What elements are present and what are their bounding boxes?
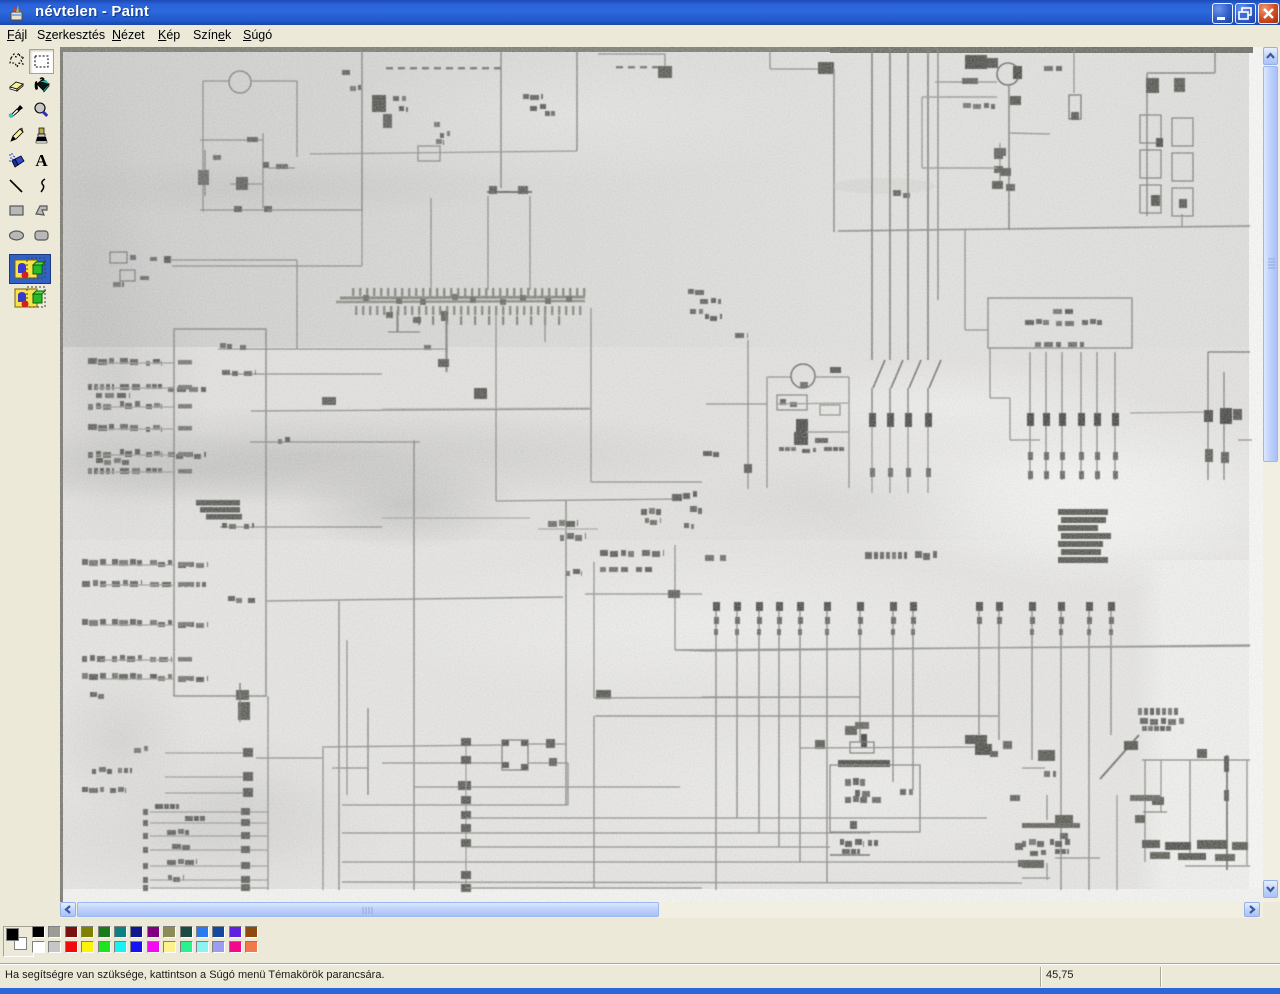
junction cluster (236, 690, 249, 700)
label (113, 282, 121, 287)
wire comb far right (1031, 602, 1033, 760)
tick labels (220, 343, 226, 348)
junction dot (461, 824, 471, 832)
wire (1046, 863, 1048, 880)
wire (367, 708, 369, 795)
wire (446, 308, 448, 372)
wire comb right pair (978, 602, 980, 740)
wire (965, 329, 988, 331)
wire (256, 757, 322, 759)
label (399, 106, 404, 111)
net label row (88, 358, 97, 364)
wire (935, 81, 997, 83)
left bottom group (1046, 795, 1048, 820)
wrinkle shading bands (0, 405, 750, 505)
wire (382, 762, 502, 764)
label (185, 816, 193, 821)
wire (218, 348, 448, 350)
wire (222, 373, 382, 375)
wire (594, 697, 860, 698)
wire (830, 854, 870, 856)
wire (322, 745, 502, 747)
wire (675, 650, 705, 651)
wire (414, 786, 680, 788)
U2 text (1053, 309, 1062, 314)
junction (596, 690, 611, 699)
label (155, 804, 163, 809)
label (342, 70, 350, 75)
label (172, 844, 181, 849)
label (893, 190, 901, 196)
junction (234, 206, 242, 212)
wire (342, 832, 870, 834)
meter M2 (767, 376, 791, 378)
wire (342, 882, 1022, 883)
junction dot (461, 811, 471, 819)
resistor stack (999, 143, 1001, 188)
connector J1 cluster (110, 252, 127, 263)
label (228, 596, 235, 601)
label PROBE (688, 289, 694, 294)
label (855, 790, 860, 796)
diode D1 (372, 95, 386, 112)
faint wire (382, 408, 590, 409)
junction dot (461, 884, 471, 892)
wire (250, 441, 420, 443)
text block NOTE (1058, 509, 1108, 515)
wire (487, 196, 489, 290)
label (424, 345, 431, 350)
wire (466, 817, 987, 819)
wire (267, 696, 269, 890)
label (92, 769, 96, 774)
connector row (150, 887, 268, 889)
wire (251, 80, 297, 82)
wire (296, 260, 298, 349)
junction (264, 206, 272, 212)
wire (1181, 214, 1183, 226)
label TP1 (523, 94, 529, 99)
wire (593, 562, 595, 698)
U2 text (1025, 320, 1034, 325)
wire (202, 81, 204, 212)
label (278, 439, 282, 444)
wire (262, 133, 264, 208)
connector comb under U2 (1029, 352, 1031, 480)
wire (1009, 398, 1011, 440)
text block SELECT (196, 500, 240, 506)
wire (1010, 439, 1040, 441)
relay block right (1207, 352, 1209, 480)
faint wire (382, 517, 530, 519)
U2 text (1035, 342, 1041, 347)
connector row (150, 865, 268, 867)
junction (1010, 96, 1021, 105)
wire (1010, 133, 1050, 134)
wire (591, 481, 702, 483)
label (963, 103, 971, 108)
wire (500, 48, 502, 188)
wire (1238, 439, 1252, 441)
IC U1 header strip (340, 297, 585, 298)
net label row (88, 384, 92, 390)
label plus (830, 367, 841, 373)
meter M1 (229, 71, 251, 93)
label (700, 299, 708, 304)
wire (342, 861, 1022, 863)
wire comb bottom (715, 602, 717, 890)
diode D4 (474, 388, 487, 399)
diode D3 (818, 62, 834, 74)
connector row (150, 835, 268, 837)
wire (170, 259, 297, 261)
wire (310, 151, 577, 154)
wire (430, 198, 432, 295)
label (436, 139, 442, 144)
wire (1022, 767, 1045, 769)
net label row (82, 581, 90, 587)
connector row (150, 849, 268, 851)
capacitor C2 (487, 191, 532, 193)
wire (268, 209, 362, 211)
label (735, 333, 744, 338)
switch box SW2 (1142, 759, 1250, 761)
capacitor C1 (230, 183, 262, 185)
label (168, 875, 172, 880)
meter pointer dark blob (796, 419, 808, 432)
wire (593, 716, 595, 888)
contact (1197, 749, 1207, 758)
junction (546, 739, 555, 748)
net label row (88, 424, 97, 430)
wire (990, 397, 1010, 399)
wire (200, 209, 268, 211)
resistor R1 (247, 137, 258, 142)
IC U2 box (988, 298, 1132, 348)
wire (466, 887, 702, 889)
resistor ladder (1146, 73, 1148, 216)
wire (674, 545, 676, 650)
smudge (832, 178, 936, 194)
wire (1116, 795, 1118, 890)
label (845, 779, 851, 786)
wire (465, 740, 467, 890)
IC header dark spots (363, 295, 369, 301)
meter scale box (777, 395, 807, 410)
label (276, 164, 288, 169)
wire (800, 747, 985, 748)
relay K1 (502, 740, 528, 770)
wire (332, 767, 368, 769)
junction dot (461, 738, 471, 746)
wire (769, 48, 771, 69)
wire (528, 762, 568, 764)
wire (413, 440, 415, 890)
resistor R5 pill (1073, 48, 1075, 93)
relay box K2 (open right) (922, 96, 997, 98)
wire (220, 526, 382, 528)
transistor Q1 (204, 150, 206, 196)
label (167, 860, 176, 865)
label (545, 111, 550, 116)
wire (1130, 412, 1208, 413)
wire (664, 54, 666, 78)
text cluster (548, 521, 557, 527)
label (1044, 771, 1050, 777)
contact (1124, 741, 1138, 750)
wire (576, 48, 578, 151)
wire (702, 696, 860, 698)
connector box B1 (174, 329, 266, 696)
dark cluster right (965, 735, 987, 744)
junction (549, 758, 557, 766)
junction dot (461, 796, 471, 804)
label (167, 830, 176, 835)
wire (747, 340, 749, 489)
bottom white strip of scan (60, 889, 1263, 902)
component X1 (418, 146, 440, 161)
wire (590, 308, 592, 482)
wire (565, 500, 567, 805)
junction (672, 494, 682, 501)
junction blob (458, 781, 471, 790)
wire (496, 499, 680, 501)
connector row (165, 792, 246, 794)
wire (964, 230, 966, 330)
wire (598, 53, 665, 55)
wrinkle highlight zones (810, 395, 1280, 565)
label (900, 789, 906, 795)
wire (1022, 877, 1050, 879)
label (705, 314, 709, 319)
junction blob (322, 397, 336, 405)
wire (529, 196, 531, 290)
net label row (88, 468, 92, 474)
wire (346, 640, 348, 795)
switch bank S1-S4 bus (871, 48, 873, 360)
junction dot (461, 756, 471, 764)
junction dot (461, 871, 471, 879)
faint wire (538, 528, 598, 530)
label (1044, 66, 1053, 71)
wire (397, 308, 399, 332)
wire (296, 81, 298, 157)
wire (833, 69, 835, 232)
dashed wire (386, 67, 393, 69)
wire (338, 601, 340, 890)
text PUNCH (840, 839, 844, 845)
wire (989, 348, 991, 398)
wire (770, 68, 830, 70)
junction (962, 78, 978, 84)
paper lower area (60, 540, 1263, 902)
diode D2 (658, 66, 672, 78)
wire (777, 403, 848, 404)
text FUNCTION (1138, 708, 1142, 715)
connector row (165, 776, 246, 778)
wire (1055, 857, 1100, 859)
junction (744, 464, 752, 473)
wire (567, 763, 569, 805)
scan left dark edge (60, 47, 63, 902)
function switch lever (1100, 735, 1139, 779)
wire (200, 139, 263, 141)
net label row (88, 452, 93, 458)
wire (806, 431, 849, 433)
label (222, 370, 230, 375)
component (820, 405, 840, 415)
wire (268, 167, 295, 169)
wire (267, 597, 563, 601)
right margin light column (0, 0, 1, 1)
label (222, 523, 227, 528)
label (530, 106, 537, 111)
wire (937, 48, 939, 300)
meter text (779, 447, 784, 451)
wire (848, 377, 850, 488)
net label row (82, 656, 87, 662)
junction (263, 162, 269, 168)
wire (322, 748, 324, 890)
label (134, 748, 141, 753)
label (903, 193, 910, 198)
connector row (150, 822, 268, 824)
wire (1008, 86, 1010, 230)
label (90, 692, 97, 697)
scan top dark edge (62, 47, 1253, 52)
label (690, 309, 696, 314)
wire long horizontal (838, 226, 1250, 231)
label (434, 122, 440, 127)
label (82, 787, 88, 792)
wire (495, 310, 497, 501)
wire (251, 409, 590, 411)
net label row (82, 559, 88, 565)
junction dot (461, 839, 471, 847)
wire (203, 80, 229, 82)
wire (342, 804, 568, 806)
wire (595, 715, 998, 717)
wire bus vertical (361, 48, 363, 212)
label (703, 451, 712, 456)
box TAPE (830, 765, 920, 832)
dark contact row (1142, 840, 1160, 848)
wire (528, 743, 566, 745)
terminal cluster T1 (845, 726, 857, 735)
net label row (82, 619, 88, 625)
transistor Q3 circle (997, 63, 1019, 85)
svg-text:A: A (35, 151, 48, 170)
label (393, 96, 399, 101)
connector row (150, 879, 268, 881)
wire (361, 212, 363, 266)
net label row (82, 673, 88, 679)
wire (172, 265, 362, 267)
transistor Q2 (965, 55, 987, 69)
left pin network (396, 310, 398, 332)
wire long (675, 646, 1250, 650)
wire long (705, 645, 1250, 651)
wire (544, 308, 546, 342)
label (350, 86, 356, 91)
edge bits (1010, 795, 1020, 801)
label CONTROL (865, 552, 872, 559)
dashed wire (616, 66, 623, 68)
wire (706, 403, 767, 405)
label rows mid (600, 550, 608, 556)
IC pins lower (418, 316, 420, 325)
junction (1038, 750, 1055, 761)
label (440, 133, 444, 138)
connector row (150, 811, 268, 813)
wire (766, 377, 768, 488)
wire (466, 846, 830, 848)
net label row (88, 404, 93, 410)
connector row (165, 752, 246, 754)
